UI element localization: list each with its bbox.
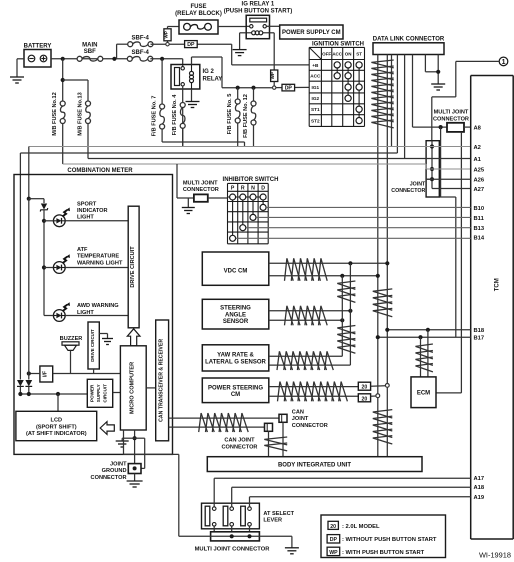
svg-text:BODY INTEGRATED UNIT: BODY INTEGRATED UNIT [278,463,351,469]
svg-text:CM: CM [231,392,240,398]
svg-text:POWER: POWER [89,384,94,402]
svg-text:TCM: TCM [495,278,501,291]
svg-text:AWD WARNING: AWD WARNING [77,303,119,309]
svg-text:DP: DP [187,42,195,48]
svg-text:A26: A26 [474,178,485,184]
svg-text:CAN TRANSCEIVER & RECEIVER: CAN TRANSCEIVER & RECEIVER [158,339,164,422]
svg-text:MULTI JOINT CONNECTOR: MULTI JOINT CONNECTOR [195,546,271,552]
svg-text:DRIVE CIRCUIT: DRIVE CIRCUIT [90,329,95,362]
svg-text:IG1: IG1 [312,85,320,90]
svg-text:LIGHT: LIGHT [77,310,94,316]
svg-text:F/B FUSE No. 5: F/B FUSE No. 5 [227,94,233,135]
svg-text:20: 20 [362,385,368,391]
svg-text:B18: B18 [474,328,485,334]
svg-text:A18: A18 [474,485,485,491]
svg-text:A2: A2 [474,145,481,151]
svg-text:(PUSH BUTTON START): (PUSH BUTTON START) [224,8,292,14]
svg-text:WI-19918: WI-19918 [479,550,511,559]
svg-text:INHIBITOR SWITCH: INHIBITOR SWITCH [223,177,279,183]
svg-text:CONNECTOR: CONNECTOR [433,116,469,122]
svg-text:MICRO COMPUTER: MICRO COMPUTER [130,362,136,414]
svg-text:AT SELECT: AT SELECT [263,511,294,517]
svg-text:MULTI JOINT: MULTI JOINT [183,180,218,186]
svg-text:WARNING LIGHT: WARNING LIGHT [77,260,123,266]
svg-text:SENSOR: SENSOR [223,319,249,325]
svg-text:STEERING: STEERING [220,306,251,312]
svg-text:OFF: OFF [322,52,331,57]
svg-text:LATERAL G SENSOR: LATERAL G SENSOR [205,359,266,365]
svg-text:ON: ON [345,52,352,57]
svg-text:F/B FUSE No. 12: F/B FUSE No. 12 [243,94,249,138]
svg-text:JOINT: JOINT [110,461,127,467]
svg-text:IG RELAY 1: IG RELAY 1 [242,2,275,8]
svg-text:TEMPERATURE: TEMPERATURE [77,254,119,260]
svg-text:N: N [251,186,255,192]
svg-text:(RELAY BLOCK): (RELAY BLOCK) [175,11,222,17]
svg-text:M/B FUSE No.13: M/B FUSE No.13 [77,92,83,136]
svg-text:DRIVE CIRCUIT: DRIVE CIRCUIT [130,246,136,288]
svg-text:VDC CM: VDC CM [224,269,248,275]
svg-text:I/F: I/F [43,371,49,377]
svg-text:MULTI JOINT: MULTI JOINT [434,110,469,116]
svg-text:20: 20 [330,524,336,530]
svg-text:(AT SHIFT INDICATOR): (AT SHIFT INDICATOR) [26,431,87,437]
svg-text:LEVER: LEVER [263,518,282,524]
svg-text:A27: A27 [474,187,485,193]
svg-text:WP: WP [270,72,275,79]
svg-text:A19: A19 [474,495,485,501]
svg-text:P: P [231,186,235,192]
svg-text:CONNECTOR: CONNECTOR [91,475,127,481]
svg-text:R: R [241,186,245,192]
svg-text:CONNECTOR: CONNECTOR [292,423,328,429]
svg-text:LCD: LCD [51,418,63,424]
svg-text:SBF-4: SBF-4 [132,36,150,42]
svg-text:: WITHOUT PUSH BUTTON START: : WITHOUT PUSH BUTTON START [342,537,437,543]
svg-text:: 2.0L MODEL: : 2.0L MODEL [342,524,380,530]
svg-text:CAN: CAN [292,409,304,415]
svg-text:B11: B11 [474,216,485,222]
svg-text:CONNECTOR: CONNECTOR [391,188,425,194]
svg-text:D: D [261,186,265,192]
svg-text:A8: A8 [474,125,482,131]
svg-text:+B: +B [312,63,319,68]
svg-text:RELAY: RELAY [203,77,223,83]
svg-text:WP: WP [329,550,338,556]
svg-text:DATA LINK CONNECTOR: DATA LINK CONNECTOR [373,36,445,42]
svg-text:: WITH PUSH BUTTON START: : WITH PUSH BUTTON START [342,550,425,556]
svg-text:ST2: ST2 [311,119,320,124]
svg-text:CAN JOINT: CAN JOINT [224,438,255,444]
svg-text:ATF: ATF [77,247,88,253]
svg-text:CONNECTOR: CONNECTOR [222,444,258,450]
svg-text:JOINT: JOINT [410,182,426,188]
svg-text:F/B FUSE No. 7: F/B FUSE No. 7 [151,96,157,137]
svg-text:SPORT: SPORT [77,201,97,207]
svg-text:1: 1 [502,59,506,66]
svg-text:B14: B14 [474,236,485,242]
svg-text:(SPORT SHIFT): (SPORT SHIFT) [36,424,77,430]
svg-text:ACC: ACC [332,52,342,57]
svg-text:ECM: ECM [417,391,430,397]
svg-text:B10: B10 [474,206,485,212]
svg-text:MAIN: MAIN [82,43,97,49]
svg-text:A17: A17 [474,476,485,482]
svg-text:ST: ST [356,52,362,57]
svg-text:A1: A1 [474,157,482,163]
svg-text:20: 20 [362,396,368,402]
svg-text:COMBINATION METER: COMBINATION METER [67,168,133,174]
svg-text:CIRCUIT: CIRCUIT [103,384,108,403]
svg-text:M/B FUSE No.12: M/B FUSE No.12 [52,92,58,136]
svg-text:YAW RATE &: YAW RATE & [217,353,254,359]
svg-text:INDICATOR: INDICATOR [77,208,108,214]
svg-text:ST1: ST1 [311,107,320,112]
svg-text:IG2: IG2 [312,96,320,101]
svg-text:DP: DP [285,86,293,92]
svg-text:SUPPLY: SUPPLY [96,384,101,402]
svg-text:IG 2: IG 2 [203,69,215,75]
svg-text:A25: A25 [474,167,485,173]
svg-text:POWER STEERING: POWER STEERING [208,385,263,391]
svg-text:CONNECTOR: CONNECTOR [183,187,219,193]
svg-text:ANGLE: ANGLE [225,312,246,318]
svg-text:BATTERY: BATTERY [24,44,52,50]
svg-text:IGNITION SWITCH: IGNITION SWITCH [312,41,364,47]
svg-text:B13: B13 [474,226,485,232]
svg-text:DP: DP [330,537,338,543]
svg-text:F/B FUSE No. 4: F/B FUSE No. 4 [172,94,178,136]
svg-text:POWER SUPPLY CM: POWER SUPPLY CM [282,30,341,36]
svg-text:GROUND: GROUND [102,468,127,474]
svg-text:SBF-4: SBF-4 [132,50,150,56]
svg-text:B17: B17 [474,336,485,342]
svg-text:WP: WP [164,31,169,38]
svg-text:SBF: SBF [84,49,96,55]
svg-text:LIGHT: LIGHT [77,215,94,221]
svg-text:JOINT: JOINT [292,416,309,422]
svg-text:ACC: ACC [310,74,321,79]
svg-text:FUSE: FUSE [190,4,206,10]
